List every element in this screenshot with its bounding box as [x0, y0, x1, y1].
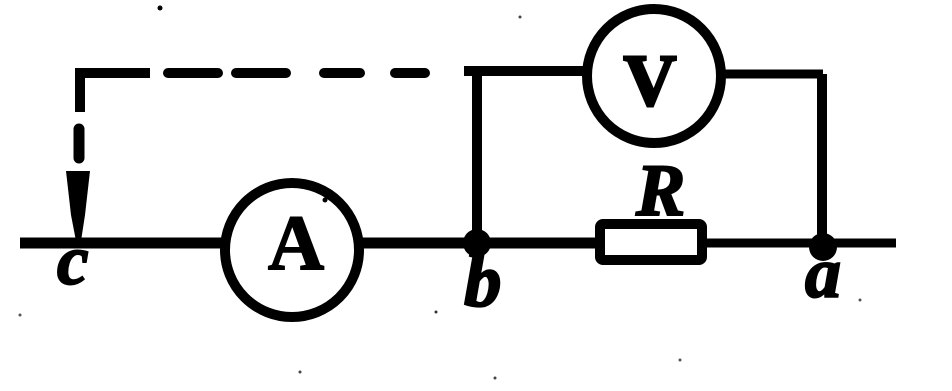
wire: vertical dash segment — [74, 129, 85, 158]
arrow head pointing down at node c — [66, 171, 90, 241]
speckle noise dots — [158, 6, 163, 11]
node b junction dot — [463, 229, 491, 257]
wire: voltmeter to right corner — [720, 70, 823, 79]
wire: ammeter to resistor (through node b) — [360, 238, 596, 249]
svg-text:A: A — [268, 199, 324, 286]
svg-text:R: R — [635, 150, 685, 232]
ammeter A1 circle — [225, 183, 359, 317]
wire: vertical from node b up — [472, 66, 482, 243]
wire: vertical down to node a — [817, 74, 827, 243]
svg-text:c: c — [57, 222, 89, 300]
svg-text:b: b — [464, 240, 502, 323]
wire: b-top to voltmeter — [464, 66, 588, 76]
wire: dashed path corner (horizontal + down) — [80, 73, 150, 112]
wire: resistor to right end (through node a) — [706, 239, 896, 248]
wire: main horizontal left segment c to ammeter — [20, 238, 226, 249]
node a junction dot — [809, 233, 837, 261]
wire: dash segment 5 — [395, 68, 425, 78]
resistor R1 body — [600, 224, 702, 260]
wire: dash segment 4 — [324, 68, 360, 78]
voltmeter V1 circle — [587, 9, 721, 143]
svg-text:V: V — [624, 40, 677, 121]
wire: dash segment 3 — [236, 68, 286, 78]
wire: dash segment 2 — [168, 68, 218, 78]
svg-text:a: a — [805, 233, 841, 313]
